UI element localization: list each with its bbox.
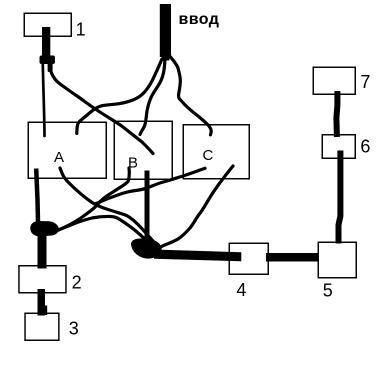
svg-text:ввод: ввод: [179, 11, 220, 28]
wire ввод to box C top: [171, 57, 212, 135]
svg-text:3: 3: [69, 319, 79, 339]
box 7: [313, 67, 355, 94]
thick wire box6 to box5: [339, 151, 341, 244]
wire box A bottom to junction J2: [60, 168, 153, 241]
box B: [114, 121, 172, 179]
thick wire box 4 to box 5: [266, 253, 318, 262]
box C: [183, 125, 249, 179]
wire thick from box1: [42, 27, 50, 57]
wire box B bottom to junction J1: [57, 168, 129, 231]
box 4: [229, 243, 268, 274]
junction J2 blob: [132, 239, 160, 257]
svg-text:1: 1: [76, 19, 86, 39]
thick wire box B to junction J2: [145, 171, 150, 241]
box 6: [322, 135, 355, 159]
thick wire J1 to box 2: [38, 230, 47, 269]
box 3: [25, 313, 59, 340]
wire box A interior down to junction J1: [36, 169, 38, 223]
box 1: [24, 13, 71, 36]
wire ввод to box B top: [140, 59, 165, 135]
thick wire box2 to box3: [38, 289, 48, 316]
svg-text:5: 5: [323, 281, 333, 301]
svg-text:6: 6: [360, 136, 370, 156]
box A: [28, 122, 106, 178]
wire box C interior to junction J2: [160, 166, 233, 250]
ввод feeder bar: [160, 4, 171, 61]
svg-text:4: 4: [236, 280, 246, 300]
wire junction J1 to junction J2: [52, 216, 146, 240]
box 2: [19, 266, 66, 293]
wire J1 area to box C interior: [95, 168, 205, 204]
svg-text:C: C: [203, 147, 214, 164]
wire blob1a to box B interior: [50, 62, 153, 154]
svg-text:7: 7: [360, 72, 370, 92]
wire blob1a to box A top: [43, 64, 45, 136]
connector blob under box1: [40, 56, 56, 65]
svg-text:2: 2: [72, 272, 82, 292]
thick wire box7 to box6: [336, 91, 337, 137]
box 5: [318, 242, 356, 278]
wire ввод to box A top: [77, 59, 162, 134]
junction J1 blob: [31, 222, 58, 236]
thick wire J2 to box 4: [154, 250, 241, 262]
svg-text:A: A: [54, 149, 64, 166]
